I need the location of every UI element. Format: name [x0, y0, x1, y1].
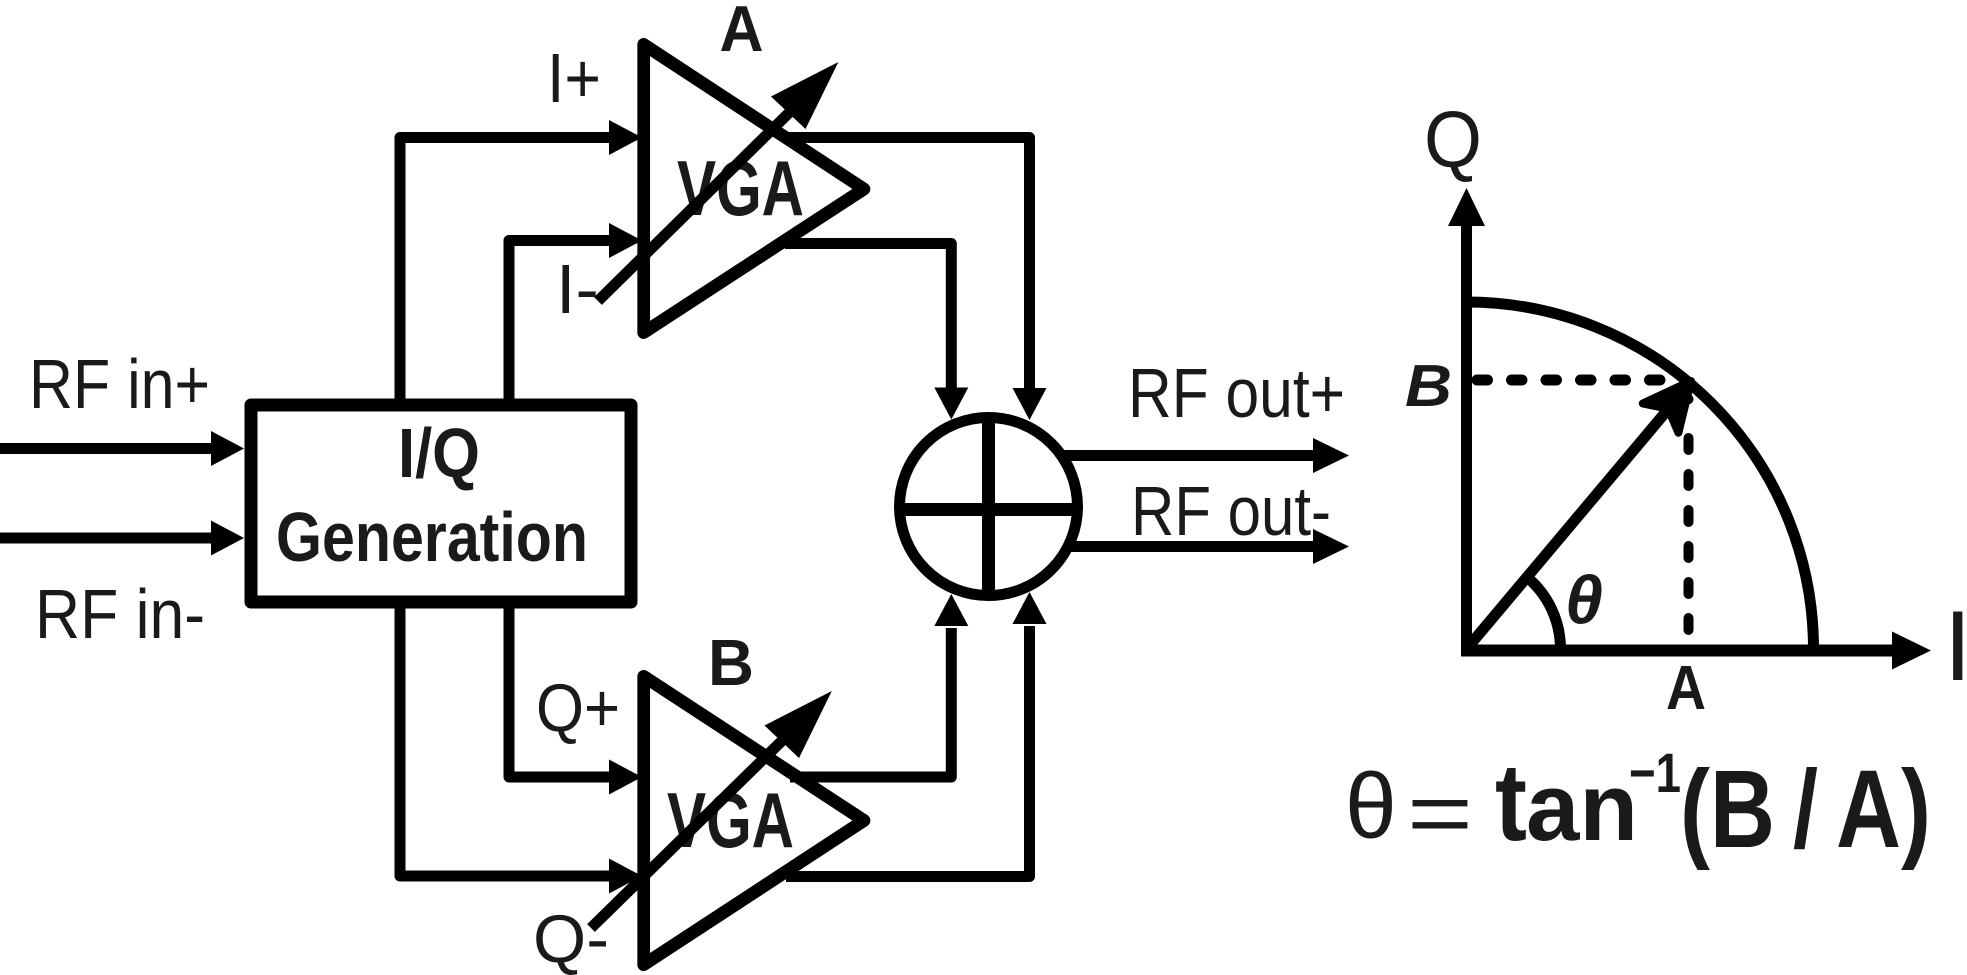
- amplifier VGA B triangle: [644, 676, 864, 964]
- wire RF out+ arrow: [1062, 438, 1349, 473]
- svg-text:θ: θ: [1345, 754, 1397, 858]
- IQ plot: I axis: [1461, 632, 1931, 670]
- amplifier VGA A triangle: [644, 44, 864, 332]
- svg-text:Q: Q: [1424, 95, 1482, 184]
- arrow through VGA A (gain control): [598, 62, 838, 301]
- svg-text:θ: θ: [1565, 562, 1603, 638]
- wire VGA A upper output to summer: [785, 138, 1047, 421]
- svg-text:I: I: [1944, 590, 1967, 701]
- equation theta = tan^-1 (B/A): [1345, 740, 1931, 871]
- svg-text:RF in-: RF in-: [35, 575, 205, 653]
- svg-text:=: =: [1407, 764, 1473, 863]
- svg-text:RF in+: RF in+: [29, 345, 210, 423]
- svg-text:I+: I+: [547, 39, 601, 117]
- svg-text:I-: I-: [556, 250, 599, 328]
- summer (adder) circle with cross: [900, 418, 1078, 596]
- wire I- (riser and horizontal with arrow): [509, 223, 642, 405]
- svg-text:−1: −1: [1629, 741, 1681, 804]
- svg-text:Q-: Q-: [533, 901, 609, 975]
- wire RF out- arrow: [1066, 529, 1349, 564]
- IQ plot: angle arc theta: [1526, 577, 1560, 649]
- IQ plot: quarter-circle arc: [1467, 302, 1814, 649]
- wire RF in- arrow: [0, 521, 244, 556]
- svg-text:B: B: [708, 626, 754, 699]
- wire VGA A lower output to summer: [785, 244, 968, 420]
- wire I+ (riser and horizontal with arrow): [400, 120, 642, 405]
- wire RF in+ arrow: [0, 431, 244, 466]
- IQ plot: dashed vertical at A: [1684, 399, 1694, 648]
- svg-text:an: an: [1526, 754, 1638, 861]
- svg-text:Q+: Q+: [536, 670, 620, 746]
- svg-text:A: A: [1666, 654, 1706, 723]
- svg-text:A: A: [720, 0, 764, 65]
- wire VGA B upper output to summer: [790, 594, 968, 777]
- svg-text:RF out-: RF out-: [1131, 472, 1331, 550]
- IQ plot: vector arrow: [1467, 381, 1692, 649]
- wire VGA B lower output to summer: [786, 592, 1047, 877]
- svg-text:I/Q: I/Q: [398, 414, 480, 492]
- block I/Q Generation: [251, 405, 631, 602]
- IQ plot: dashed horizontal at B: [1477, 375, 1680, 386]
- svg-text:RF out+: RF out+: [1128, 354, 1345, 432]
- svg-text:(B / A): (B / A): [1680, 748, 1931, 871]
- IQ plot: Q axis: [1448, 188, 1485, 655]
- wire Q+ (riser and horizontal with arrow): [509, 602, 642, 795]
- svg-text:t: t: [1495, 740, 1527, 864]
- svg-text:Generation: Generation: [276, 498, 588, 576]
- svg-text:B: B: [1405, 353, 1452, 419]
- arrow through VGA B (gain control): [591, 691, 832, 928]
- wire Q- (riser and horizontal with arrow): [400, 602, 642, 894]
